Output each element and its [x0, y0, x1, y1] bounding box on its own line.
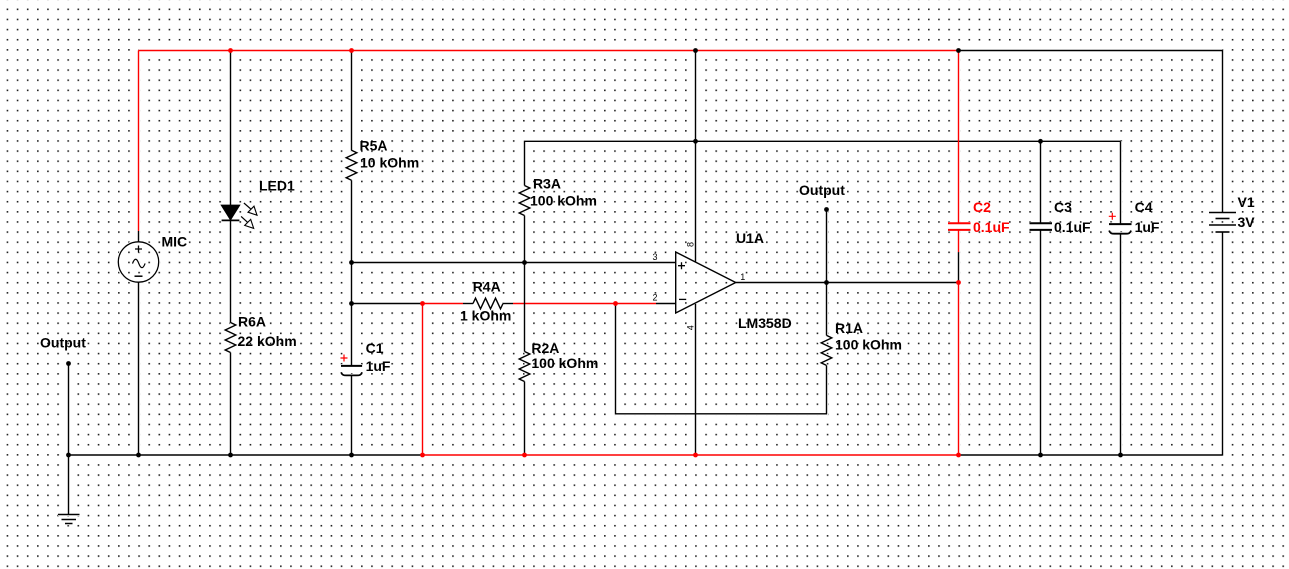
capacitor C2 red — [948, 223, 971, 230]
resistor R4A — [463, 298, 513, 309]
wire R6A to bottom rail — [230, 353, 232, 456]
svg-text:8: 8 — [685, 242, 695, 247]
resistor R1A — [821, 335, 832, 365]
svg-text:22 kOhm: 22 kOhm — [238, 333, 297, 349]
wire C3 bottom — [1040, 230, 1042, 455]
svg-text:R6A: R6A — [238, 314, 266, 330]
wire noninverting input line — [352, 262, 676, 264]
node bottom rail R6A junction — [228, 453, 233, 458]
node plus input R3A junction — [522, 260, 527, 265]
wire bottom rail black left — [69, 454, 423, 456]
svg-text:MIC: MIC — [162, 234, 188, 250]
svg-text:C4: C4 — [1135, 199, 1153, 215]
wire C4 top corner — [1120, 141, 1122, 224]
svg-text:0.1uF: 0.1uF — [973, 219, 1010, 235]
node bottom rail R2A junction — [522, 453, 527, 458]
svg-text:2: 2 — [652, 292, 657, 302]
wire R2A bottom to rail — [524, 382, 526, 456]
svg-text:U1A: U1A — [736, 230, 764, 246]
svg-text:4: 4 — [685, 325, 695, 330]
svg-text:100 kOhm: 100 kOhm — [531, 355, 598, 371]
label C1 1uF — [366, 340, 391, 374]
node inverting red left junction — [420, 301, 425, 306]
node output line R1A junction — [824, 280, 829, 285]
svg-text:1uF: 1uF — [1135, 219, 1160, 235]
wire C1 to bottom rail — [351, 375, 353, 455]
label R1A 100 kOhm — [835, 320, 902, 353]
node top rail C2 junction — [956, 48, 961, 53]
wire MIC top pin stub — [138, 231, 140, 242]
svg-text:LED1: LED1 — [259, 178, 295, 194]
wire Output right vertical — [826, 210, 828, 283]
svg-text:R5A: R5A — [360, 138, 388, 154]
wire R3A bottom to plus input — [524, 216, 526, 263]
label C2 0.1uF red — [973, 199, 1010, 235]
svg-text:100 kOhm: 100 kOhm — [530, 192, 597, 208]
svg-text:R1A: R1A — [835, 320, 863, 336]
wire top rail black segment to V1 — [959, 50, 1223, 52]
node inverting red right junction — [613, 301, 618, 306]
node inverting left junction — [349, 301, 354, 306]
wire C4 bottom — [1120, 234, 1122, 455]
wire R5A column top — [351, 51, 353, 151]
wire R1A top lead — [826, 283, 828, 336]
svg-text:R4A: R4A — [473, 279, 501, 295]
node plus input left junction — [349, 260, 354, 265]
svg-text:C3: C3 — [1054, 199, 1072, 215]
wire MIC bottom vertical — [138, 282, 140, 455]
label C3 0.1uF — [1054, 199, 1091, 235]
svg-text:R2A: R2A — [531, 340, 559, 356]
wire plus input node down through R2A column — [524, 263, 526, 352]
wire inverting line red segment left — [423, 303, 464, 305]
svg-text:V1: V1 — [1238, 194, 1255, 210]
svg-text:0.1uF: 0.1uF — [1054, 219, 1091, 235]
wire bottom rail red middle — [423, 454, 959, 456]
wire V1 top — [1222, 51, 1224, 213]
node bottom rail pin4 junction — [693, 453, 698, 458]
svg-text:10 kOhm: 10 kOhm — [360, 155, 419, 171]
node top rail LED junction — [228, 48, 233, 53]
svg-text:C2: C2 — [973, 199, 991, 215]
node bottom rail C1 junction — [349, 453, 354, 458]
wire op-amp pin4 power — [695, 304, 697, 455]
svg-text:3: 3 — [652, 252, 657, 262]
node bottom rail MIC junction — [136, 453, 141, 458]
label R5A 10 kOhm — [360, 138, 420, 171]
wire red vertical to ground rail — [422, 304, 424, 456]
node bottom rail C4 junction — [1118, 453, 1123, 458]
node second rail C3 junction — [1038, 139, 1043, 144]
wire top rail red segment V+ — [139, 50, 959, 52]
label R6A 22 kOhm — [238, 314, 297, 349]
svg-text:C1: C1 — [366, 340, 384, 356]
wire LED column top — [230, 51, 232, 206]
node bottom rail C2 junction — [956, 453, 961, 458]
wire op-amp pin8 power — [695, 51, 697, 262]
wire R1A bottom feedback to inverting input — [616, 304, 827, 414]
wire C2 red top — [958, 51, 960, 224]
node Output right — [824, 207, 829, 212]
node output line C2 junction — [956, 280, 961, 285]
node bottom rail red vert junction — [420, 453, 425, 458]
wire C2 red below plates — [958, 230, 960, 252]
ground — [58, 455, 80, 524]
node top rail R5A junction — [349, 48, 354, 53]
capacitor C3 — [1030, 223, 1053, 230]
wire V1 bottom — [1222, 232, 1224, 455]
wire Output left vertical — [68, 364, 70, 456]
node second rail pin8 junction — [693, 139, 698, 144]
label R2A 100 kOhm — [531, 340, 598, 371]
microphone source MIC — [118, 242, 158, 282]
wire underlay mask — [58, 51, 1236, 524]
resistor R2A — [519, 352, 530, 382]
wire op-amp pin2 stub — [656, 303, 676, 305]
node bottom rail ground junction — [66, 453, 71, 458]
label R3A 100 kOhm — [530, 176, 597, 209]
node Output left — [66, 361, 71, 366]
battery V1 — [1209, 213, 1236, 233]
wire inverting line red segment right — [513, 303, 656, 305]
wire C2 red bottom — [958, 283, 960, 456]
node top rail pin8 junction — [693, 48, 698, 53]
capacitor C1 polarized — [341, 355, 363, 376]
label V1 3V — [1238, 194, 1256, 230]
svg-text:LM358D: LM358D — [738, 315, 792, 331]
svg-text:3V: 3V — [1238, 214, 1256, 230]
resistor R3A — [519, 186, 530, 216]
resistor R5A — [346, 150, 357, 180]
svg-text:Output: Output — [40, 335, 86, 351]
svg-text:1uF: 1uF — [366, 358, 391, 374]
wire C2 black segment — [958, 252, 960, 282]
svg-text:100 kOhm: 100 kOhm — [835, 337, 902, 353]
svg-text:R3A: R3A — [533, 176, 561, 192]
wire R5A to C1 — [351, 180, 353, 365]
svg-text:1 kOhm: 1 kOhm — [460, 308, 511, 324]
op-amp U1A — [676, 252, 736, 313]
wire C3 top — [1040, 141, 1042, 223]
wire op-amp output line — [736, 282, 959, 284]
wire R3A top corner and second rail — [525, 141, 1121, 185]
wire inverting line black segment — [352, 303, 423, 305]
label R4A 1 kOhm — [460, 279, 511, 324]
LED LED1 — [222, 203, 257, 228]
wire LED to R6A — [230, 220, 232, 322]
wire bottom rail black right — [959, 454, 1223, 456]
svg-text:Output: Output — [799, 182, 845, 198]
wire MIC top red vertical — [138, 51, 140, 232]
resistor R6A — [225, 323, 236, 353]
capacitor C4 polarized — [1109, 213, 1132, 234]
node bottom rail C3 junction — [1038, 453, 1043, 458]
svg-text:1: 1 — [740, 272, 745, 282]
label C4 1uF — [1135, 199, 1160, 235]
